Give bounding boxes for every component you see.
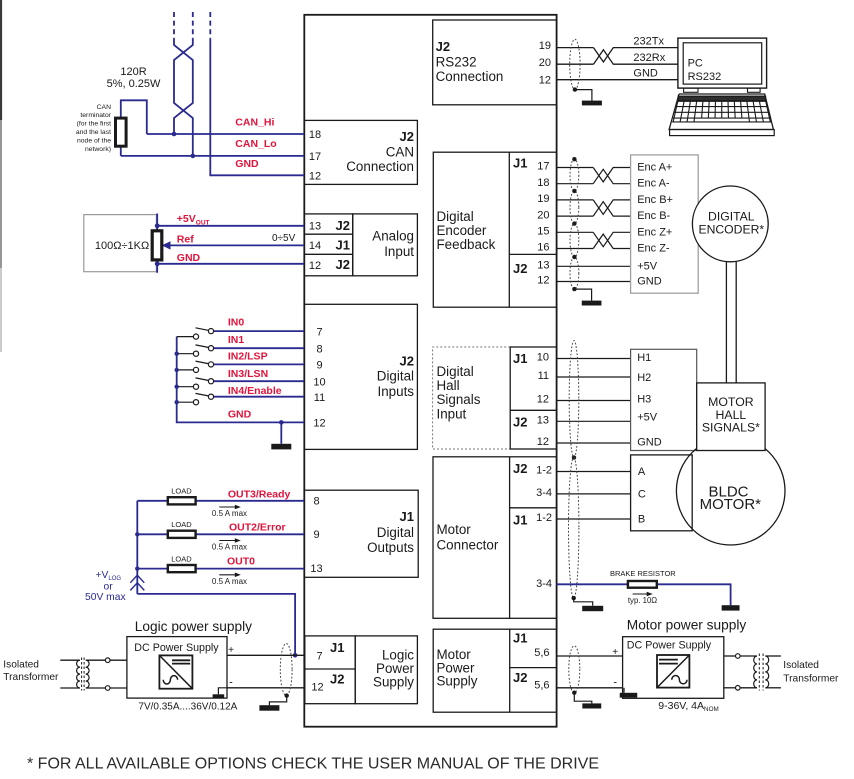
wire logic supply + (to pin 7) bbox=[227, 654, 304, 656]
shield ground stem (RS232) bbox=[575, 90, 592, 101]
svg-text:1-2: 1-2 bbox=[536, 465, 552, 477]
svg-text:12: 12 bbox=[311, 682, 323, 694]
wire OUT row 0 bbox=[137, 500, 304, 502]
svg-text:J2: J2 bbox=[400, 129, 414, 144]
svg-text:16: 16 bbox=[537, 242, 549, 254]
converter icon (logic) bbox=[159, 655, 192, 688]
svg-text:SIGNALS*: SIGNALS* bbox=[702, 421, 760, 435]
svg-text:J2: J2 bbox=[513, 670, 527, 685]
svg-text:Digital: Digital bbox=[377, 525, 414, 540]
svg-text:IN2/LSP: IN2/LSP bbox=[228, 351, 268, 363]
encoder label/pin divider bbox=[508, 152, 510, 307]
node CAN_Lo junction bbox=[191, 154, 196, 159]
svg-text:Enc Z+: Enc Z+ bbox=[637, 226, 672, 238]
svg-text:+: + bbox=[228, 645, 234, 656]
wire transformer primary bottom (logic) bbox=[60, 687, 80, 689]
svg-text:H1: H1 bbox=[637, 352, 651, 364]
wire Enc pair 1 bottom bbox=[557, 202, 631, 216]
node +Vlog/logic junction bbox=[293, 653, 298, 658]
resistor LOAD 2 bbox=[168, 565, 196, 572]
cable shield (RS232) bbox=[570, 39, 580, 89]
wire DC box to terminal bottom (motor) bbox=[724, 687, 736, 689]
CAN bus dashed stub 2 bbox=[192, 12, 194, 39]
encoder shaft line 2 bbox=[735, 262, 737, 383]
transformer core (logic) bbox=[81, 658, 83, 691]
box Logic Power Supply bbox=[355, 636, 417, 704]
svg-text:20: 20 bbox=[537, 209, 549, 221]
wire CAN_Lo bbox=[121, 155, 304, 157]
svg-text:Digital: Digital bbox=[437, 364, 474, 379]
svg-text:PC: PC bbox=[688, 58, 703, 70]
svg-text:12: 12 bbox=[537, 275, 549, 287]
svg-text:Transformer: Transformer bbox=[3, 672, 59, 683]
svg-text:H3: H3 bbox=[637, 393, 651, 405]
ground (brake) bbox=[722, 605, 740, 610]
wire Enc +5V bbox=[557, 265, 631, 267]
svg-text:GND: GND bbox=[235, 158, 259, 170]
svg-text:9: 9 bbox=[313, 529, 319, 541]
svg-text:17: 17 bbox=[309, 151, 321, 163]
svg-text:5%, 0.25W: 5%, 0.25W bbox=[107, 78, 161, 90]
switch SW4 left contact bbox=[193, 400, 198, 405]
svg-text:J2: J2 bbox=[336, 257, 350, 272]
cable shield (encoder pair 3) bbox=[570, 224, 579, 257]
shield ground stem (logic) bbox=[269, 696, 286, 706]
svg-text:C: C bbox=[638, 489, 646, 501]
svg-text:Hall: Hall bbox=[437, 378, 460, 393]
svg-text:Enc A+: Enc A+ bbox=[637, 162, 672, 174]
node encoder shield 1 bbox=[572, 157, 576, 161]
svg-text:J1: J1 bbox=[330, 640, 344, 655]
ground (encoder shield) bbox=[582, 301, 602, 306]
resistor BRAKE bbox=[628, 581, 657, 588]
encoder J1/J2 divider bbox=[509, 253, 556, 255]
node GND tee bbox=[155, 261, 160, 266]
terminal circle top (motor) bbox=[736, 654, 741, 659]
svg-text:+: + bbox=[612, 647, 618, 658]
svg-text:RS232: RS232 bbox=[436, 54, 477, 69]
CAN GND vertical wire bbox=[210, 39, 304, 176]
ground (digital inputs) bbox=[271, 444, 291, 450]
wire GND (analog) bbox=[157, 263, 304, 265]
svg-text:CAN: CAN bbox=[386, 145, 414, 160]
connector box J2 Digital Inputs bbox=[304, 304, 417, 449]
cable shield (encoder pair 1) bbox=[570, 159, 579, 191]
wire CAN_Hi bbox=[147, 133, 304, 135]
current arrow 2 bbox=[219, 573, 241, 578]
wire IN4/Enable bbox=[214, 396, 305, 398]
svg-text:232Rx: 232Rx bbox=[633, 52, 665, 64]
wire hall H3 bbox=[557, 400, 631, 402]
svg-text:IN3/LSN: IN3/LSN bbox=[228, 368, 268, 380]
page left-edge scan artifact bbox=[0, 0, 2, 352]
analog pin row divider 1 bbox=[304, 233, 352, 235]
wire 232Rx bbox=[557, 50, 678, 64]
node inputs GND junction bbox=[279, 420, 284, 425]
wire +Vlog to logic supply bbox=[137, 594, 295, 655]
motor phase box bbox=[631, 455, 693, 531]
wire Enc pair 1 top bbox=[557, 200, 631, 214]
svg-text:3-4: 3-4 bbox=[536, 578, 552, 590]
svg-text:Enc A-: Enc A- bbox=[637, 178, 670, 190]
ground (motor supply -) bbox=[620, 693, 638, 698]
switch SW2 feed stub bbox=[177, 369, 194, 371]
wire terminal to winding bottom (motor) bbox=[740, 687, 757, 689]
svg-text:13: 13 bbox=[309, 221, 321, 233]
switch SW3 left contact bbox=[193, 384, 198, 389]
svg-text:232Tx: 232Tx bbox=[633, 35, 664, 47]
hall signal box bbox=[631, 349, 697, 450]
wire transformer out top (motor) bbox=[765, 655, 781, 657]
wire Enc GND bbox=[557, 281, 631, 283]
svg-text:MOTOR: MOTOR bbox=[708, 395, 754, 409]
drive outline (main block) bbox=[304, 15, 556, 727]
ground (RS232 shield) bbox=[582, 101, 602, 106]
svg-text:Enc B+: Enc B+ bbox=[637, 194, 673, 206]
svg-text:GND: GND bbox=[177, 252, 201, 264]
svg-text:J1: J1 bbox=[336, 238, 350, 253]
svg-text:typ. 10Ω: typ. 10Ω bbox=[628, 596, 657, 605]
cable shield (hall) bbox=[569, 341, 579, 458]
svg-text:DC Power Supply: DC Power Supply bbox=[134, 642, 219, 654]
svg-text:J1: J1 bbox=[513, 351, 527, 366]
logic pin divider bbox=[305, 668, 355, 670]
svg-text:12: 12 bbox=[313, 418, 325, 430]
svg-text:14: 14 bbox=[309, 240, 321, 252]
svg-text:OUT3/Ready: OUT3/Ready bbox=[228, 488, 291, 500]
wire hall GND bbox=[557, 442, 631, 444]
svg-text:18: 18 bbox=[309, 129, 321, 141]
svg-text:J2: J2 bbox=[400, 353, 414, 368]
transformer primary winding (logic) bbox=[77, 660, 80, 688]
switch SW4 right contact bbox=[208, 394, 213, 399]
svg-text:19: 19 bbox=[539, 40, 551, 52]
svg-text:A: A bbox=[638, 466, 646, 478]
switch SW1 feed stub bbox=[177, 353, 194, 355]
ground (motor shield) bbox=[582, 606, 603, 611]
cable shield (encoder pair 4) bbox=[570, 257, 579, 289]
svg-text:12: 12 bbox=[309, 260, 321, 272]
wire DC box to terminal top (motor) bbox=[724, 655, 736, 657]
node shield (RS232) bbox=[573, 87, 577, 91]
digital inputs bus wire bbox=[177, 337, 305, 423]
wire +5Vout bbox=[157, 225, 304, 227]
wire transformer primary top (logic) bbox=[60, 659, 80, 661]
switch SW0 right contact bbox=[208, 329, 213, 334]
svg-text:-: - bbox=[229, 677, 233, 689]
wire phase C bbox=[557, 493, 631, 495]
encoder signal box bbox=[631, 155, 699, 293]
svg-text:(for the first: (for the first bbox=[77, 121, 111, 128]
svg-text:17: 17 bbox=[537, 161, 549, 173]
switch SW3 right contact bbox=[208, 379, 213, 384]
terminal circle top (logic) bbox=[105, 658, 110, 663]
digital outputs bus wire bbox=[136, 501, 138, 594]
motor hall signals box bbox=[697, 383, 765, 451]
node encoder shield 4 bbox=[572, 255, 576, 259]
wire logic supply - (to pin 12) bbox=[227, 687, 304, 689]
svg-text:18: 18 bbox=[537, 177, 549, 189]
svg-text:Transformer: Transformer bbox=[783, 674, 839, 685]
node encoder shield 5 bbox=[572, 287, 576, 291]
svg-text:0.5 A max: 0.5 A max bbox=[212, 509, 247, 518]
svg-text:12: 12 bbox=[537, 394, 549, 406]
ground (logic shield) bbox=[259, 705, 279, 711]
wire hall H2 bbox=[557, 376, 631, 378]
svg-text:50V max: 50V max bbox=[85, 592, 126, 603]
wire brake resistor bbox=[557, 584, 731, 605]
motor PS J1/J2 divider bbox=[510, 667, 557, 669]
terminal circle bottom (motor) bbox=[736, 686, 741, 691]
svg-text:J2: J2 bbox=[436, 39, 450, 54]
DC power supply box (motor) bbox=[623, 637, 724, 699]
+Vlog chevron 2 bbox=[130, 583, 144, 591]
resistor LOAD 0 bbox=[168, 497, 196, 504]
switch SW1 right contact bbox=[208, 346, 213, 351]
switch SW0 left contact bbox=[193, 334, 198, 339]
hall pin sub-box bbox=[510, 347, 556, 449]
node shield (logic supply) bbox=[285, 693, 289, 697]
svg-text:Connection: Connection bbox=[346, 159, 414, 174]
svg-text:20: 20 bbox=[539, 57, 551, 69]
wire Enc pair 0 top bbox=[557, 168, 631, 182]
svg-text:J1: J1 bbox=[513, 513, 527, 528]
wire OUT row 2 bbox=[137, 568, 304, 570]
wire phase A bbox=[557, 471, 631, 473]
resistor LOAD 1 bbox=[168, 531, 196, 538]
node inputs bus junction 1 bbox=[175, 352, 179, 356]
svg-text:GND: GND bbox=[228, 409, 252, 421]
node OUT2 junction bbox=[135, 532, 139, 536]
connector pin box logic supply (7/12) bbox=[305, 636, 355, 704]
svg-text:13: 13 bbox=[537, 260, 549, 272]
node inputs bus junction 2 bbox=[175, 368, 179, 372]
node encoder shield 2 bbox=[572, 189, 576, 193]
svg-text:Ref: Ref bbox=[177, 233, 194, 245]
brake current arrow bbox=[633, 592, 653, 597]
terminal circle bottom (logic) bbox=[105, 686, 110, 691]
CAN twisted pair wire CAN_Hi (vertical) bbox=[174, 39, 193, 134]
potentiometer body box bbox=[84, 215, 157, 272]
svg-text:10: 10 bbox=[537, 352, 549, 364]
switch SW0 lever bbox=[196, 328, 209, 331]
svg-text:* FOR ALL AVAILABLE OPTIONS CH: * FOR ALL AVAILABLE OPTIONS CHECK THE US… bbox=[27, 756, 599, 773]
box Motor Connector bbox=[433, 457, 557, 619]
svg-text:Isolated: Isolated bbox=[3, 660, 39, 671]
wire phase B bbox=[557, 518, 631, 520]
CAN twisted pair wire CAN_Lo (vertical) bbox=[174, 39, 193, 156]
PC laptop icon bbox=[669, 38, 774, 136]
svg-text:11: 11 bbox=[314, 392, 325, 404]
svg-text:Supply: Supply bbox=[373, 675, 414, 690]
svg-text:Input: Input bbox=[437, 406, 467, 421]
svg-text:Motor: Motor bbox=[437, 522, 472, 537]
svg-text:node of the: node of the bbox=[77, 137, 111, 144]
svg-text:+5V: +5V bbox=[637, 412, 658, 424]
svg-text:12: 12 bbox=[309, 171, 321, 183]
switch SW4 feed stub bbox=[177, 401, 194, 403]
svg-text:CAN_Lo: CAN_Lo bbox=[235, 138, 276, 150]
svg-text:5,6: 5,6 bbox=[534, 647, 549, 659]
switch SW0 feed stub bbox=[177, 336, 194, 338]
cable shield (encoder pair 2) bbox=[570, 191, 579, 224]
wire Ref bbox=[169, 244, 305, 246]
cable shield (logic supply) bbox=[280, 644, 292, 696]
svg-text:OUT2/Error: OUT2/Error bbox=[229, 522, 286, 534]
svg-text:7V/0.35A....36V/0.12A: 7V/0.35A....36V/0.12A bbox=[138, 701, 237, 712]
svg-text:Inputs: Inputs bbox=[378, 384, 415, 399]
wiper arrowhead bbox=[162, 241, 171, 249]
svg-text:terminator: terminator bbox=[80, 112, 111, 119]
switch SW1 lever bbox=[196, 345, 209, 348]
svg-text:J1: J1 bbox=[513, 630, 527, 645]
node motor shield bbox=[572, 596, 576, 600]
svg-text:Enc Z-: Enc Z- bbox=[637, 243, 670, 255]
connector box J2 RS232 Connection bbox=[433, 20, 557, 105]
wire Enc pair 2 top bbox=[557, 232, 631, 246]
svg-text:15: 15 bbox=[537, 226, 549, 238]
svg-text:DC Power Supply: DC Power Supply bbox=[627, 639, 712, 651]
node inputs bus junction 3 bbox=[175, 385, 179, 389]
svg-text:11: 11 bbox=[538, 370, 549, 382]
svg-text:ENCODER*: ENCODER* bbox=[698, 223, 764, 237]
svg-text:13: 13 bbox=[310, 563, 322, 575]
logic supply internal ground stem bbox=[218, 688, 227, 695]
svg-text:Outputs: Outputs bbox=[367, 540, 414, 555]
svg-text:120R: 120R bbox=[120, 66, 146, 78]
svg-text:Motor power supply: Motor power supply bbox=[627, 618, 747, 633]
svg-text:19: 19 bbox=[537, 193, 549, 205]
wire terminal to DC box bottom (logic) bbox=[110, 687, 127, 689]
motor connector divider bbox=[509, 457, 511, 619]
svg-text:LOAD: LOAD bbox=[171, 520, 192, 529]
wire hall H1 bbox=[557, 358, 631, 360]
svg-text:BRAKE RESISTOR: BRAKE RESISTOR bbox=[610, 569, 676, 578]
current arrow 0 bbox=[219, 505, 241, 510]
+Vlog chevron 1 bbox=[130, 575, 144, 583]
wire motor supply - (to pin 5,6 J2) bbox=[557, 687, 623, 689]
svg-text:Digital: Digital bbox=[377, 369, 414, 384]
connector box J2 CAN Connection bbox=[304, 120, 417, 184]
wire transformer out bottom (motor) bbox=[765, 687, 781, 689]
wire IN1 bbox=[214, 347, 305, 349]
switch SW1 left contact bbox=[193, 351, 198, 356]
svg-text:12: 12 bbox=[537, 436, 549, 448]
switch SW2 left contact bbox=[193, 367, 198, 372]
svg-text:7: 7 bbox=[316, 650, 322, 662]
svg-text:LOAD: LOAD bbox=[171, 554, 192, 563]
switch SW4 lever bbox=[196, 393, 209, 396]
svg-text:J2: J2 bbox=[330, 672, 344, 687]
svg-text:Isolated: Isolated bbox=[783, 660, 819, 671]
svg-text:0.5 A max: 0.5 A max bbox=[212, 543, 247, 552]
svg-text:+5V: +5V bbox=[637, 260, 658, 272]
ground (motor supply shield) bbox=[582, 703, 601, 708]
transformer primary winding (motor) bbox=[754, 656, 757, 688]
svg-text:Connection: Connection bbox=[436, 69, 504, 84]
box Motor Power Supply bbox=[433, 629, 556, 712]
svg-text:J2: J2 bbox=[513, 261, 527, 276]
encoder shaft line 1 bbox=[725, 262, 727, 383]
svg-text:3-4: 3-4 bbox=[536, 487, 552, 499]
svg-text:5,6: 5,6 bbox=[534, 680, 549, 692]
transformer secondary winding (logic) bbox=[86, 660, 89, 688]
svg-text:Encoder: Encoder bbox=[437, 223, 487, 238]
svg-text:IN0: IN0 bbox=[228, 317, 245, 329]
motor PS divider bbox=[509, 629, 511, 712]
potentiometer vertical wire bbox=[156, 214, 158, 273]
box Analog Input bbox=[353, 214, 418, 276]
cable shield (motor phases) bbox=[569, 458, 579, 598]
svg-text:-: - bbox=[613, 677, 617, 689]
node +5V tee bbox=[155, 223, 160, 228]
svg-text:LOAD: LOAD bbox=[171, 487, 192, 496]
svg-text:IN4/Enable: IN4/Enable bbox=[228, 385, 282, 397]
svg-text:7: 7 bbox=[316, 326, 322, 338]
resistor 120R (CAN terminator) bbox=[116, 118, 127, 146]
CAN bus dashed stub 3 (GND) bbox=[209, 12, 211, 39]
hall J1/J2 divider bbox=[510, 409, 556, 411]
wire GND (RS232) bbox=[557, 79, 678, 81]
wire Enc pair 0 bottom bbox=[557, 169, 631, 183]
wire 232Tx bbox=[557, 48, 678, 62]
svg-text:8: 8 bbox=[316, 343, 322, 355]
box Digital Hall Signals Input (dashed) bbox=[433, 347, 511, 449]
digital encoder circle U-ENC bbox=[692, 186, 768, 262]
label CAN terminator note bbox=[76, 104, 112, 153]
svg-text:Supply: Supply bbox=[437, 674, 478, 689]
svg-text:0.5 A max: 0.5 A max bbox=[212, 577, 247, 586]
svg-text:0÷5V: 0÷5V bbox=[272, 233, 296, 244]
svg-text:J2: J2 bbox=[513, 461, 527, 476]
svg-text:12: 12 bbox=[539, 75, 551, 87]
switch SW2 right contact bbox=[208, 362, 213, 367]
CAN bus dashed stub 1 bbox=[173, 12, 175, 39]
node CAN_Hi junction bbox=[172, 132, 177, 137]
svg-text:CAN: CAN bbox=[97, 104, 111, 111]
box Digital Encoder Feedback bbox=[433, 152, 556, 307]
wire transformer secondary top (logic) bbox=[86, 659, 106, 661]
svg-text:J2: J2 bbox=[336, 218, 350, 233]
svg-text:100Ω÷1KΩ: 100Ω÷1KΩ bbox=[95, 240, 149, 252]
transformer secondary winding (motor) bbox=[765, 656, 768, 688]
wire terminal to DC box top (logic) bbox=[110, 659, 127, 661]
switch SW2 lever bbox=[196, 361, 209, 364]
svg-text:CAN_Hi: CAN_Hi bbox=[235, 117, 274, 129]
svg-text:and the last: and the last bbox=[76, 129, 111, 136]
svg-text:J2: J2 bbox=[513, 415, 527, 430]
wire IN2/LSP bbox=[214, 363, 305, 365]
shield ground stem (motor) bbox=[574, 598, 593, 606]
wire 120R top leg bbox=[121, 100, 147, 134]
svg-text:network): network) bbox=[85, 146, 111, 153]
connector box J1 Digital Outputs bbox=[304, 490, 418, 577]
motor connector J2/J1 divider bbox=[510, 507, 557, 509]
converter icon (motor) bbox=[657, 655, 689, 688]
node OUT0 junction bbox=[135, 566, 139, 570]
wire Enc pair 2 bottom bbox=[557, 234, 631, 248]
svg-text:DIGITAL: DIGITAL bbox=[708, 209, 755, 223]
wire IN3/LSN bbox=[214, 380, 305, 382]
cable shield (motor supply) bbox=[569, 646, 580, 693]
switch SW3 lever bbox=[196, 378, 209, 381]
inputs ground stem bbox=[280, 422, 282, 443]
switch SW3 feed stub bbox=[177, 386, 194, 388]
svg-text:IN1: IN1 bbox=[228, 334, 245, 346]
wire transformer secondary bottom (logic) bbox=[86, 687, 106, 689]
svg-text:10: 10 bbox=[313, 376, 325, 388]
wire terminal to winding top (motor) bbox=[740, 655, 757, 657]
